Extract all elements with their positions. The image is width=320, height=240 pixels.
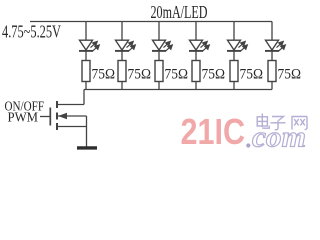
resistor R4	[192, 61, 200, 82]
wire anode branch 4	[195, 22, 197, 41]
svg-text:75Ω: 75Ω	[202, 67, 226, 83]
wire anode branch 5	[233, 22, 235, 41]
LED D5 emission arrows	[239, 41, 248, 51]
transistor Q1 drain contact bar	[56, 101, 58, 108]
resistor R6	[268, 61, 276, 82]
wire drain riser	[83, 90, 85, 105]
wire LED D4 cathode to resistor R4	[195, 51, 197, 61]
svg-text:75Ω: 75Ω	[128, 67, 152, 83]
LED D5	[227, 40, 241, 51]
svg-text:21IC: 21IC	[181, 111, 246, 152]
svg-text:75Ω: 75Ω	[92, 67, 116, 83]
transistor Q1 source lead	[57, 126, 87, 128]
watermark chinese char 网	[291, 117, 307, 130]
LED D6	[265, 40, 279, 51]
transistor Q1 source contact bar	[56, 123, 58, 130]
transistor Q1 body lead	[57, 115, 87, 117]
transistor Q1 drain lead	[57, 104, 84, 106]
svg-text:4.75~5.25V: 4.75~5.25V	[2, 22, 61, 42]
wire resistor R2 to bottom bus	[121, 82, 123, 90]
power rail +5V top bus	[30, 21, 272, 23]
watermark chinese char 电	[257, 114, 269, 129]
watermark chinese char 子	[271, 117, 286, 130]
wire resistor R3 to bottom bus	[158, 82, 160, 90]
wire LED D2 cathode to resistor R2	[121, 51, 123, 61]
wire anode branch 3	[158, 22, 160, 41]
wire gate input from PWM	[40, 116, 50, 118]
wire anode branch 2	[121, 22, 123, 41]
wire anode branch 1	[85, 22, 87, 41]
watermark dot of .com	[246, 143, 250, 147]
svg-text:75Ω: 75Ω	[165, 67, 189, 83]
resistor R1	[82, 61, 90, 82]
wire resistor R1 to bottom bus	[85, 82, 87, 90]
LED D4	[189, 40, 203, 51]
wire LED D5 cathode to resistor R5	[233, 51, 235, 61]
resistor R5	[230, 61, 238, 82]
wire resistor R4 to bottom bus	[195, 82, 197, 90]
wire LED D3 cathode to resistor R3	[158, 51, 160, 61]
LED D6 emission arrows	[277, 41, 286, 51]
LED D3	[152, 40, 166, 51]
svg-text:PWM: PWM	[8, 111, 39, 126]
svg-text:75Ω: 75Ω	[240, 67, 264, 83]
transistor Q1 gate electrode	[49, 108, 51, 126]
wire resistor R5 to bottom bus	[233, 82, 235, 90]
LED D2 emission arrows	[127, 41, 136, 51]
LED D2	[115, 40, 129, 51]
LED D1 emission arrows	[91, 41, 100, 51]
wire anode branch 6	[271, 22, 273, 41]
LED D4 emission arrows	[201, 41, 210, 51]
LED D3 emission arrows	[164, 41, 173, 51]
svg-text:20mA/LED: 20mA/LED	[151, 2, 208, 22]
wire LED D6 cathode to resistor R6	[271, 51, 273, 61]
resistor R2	[118, 61, 126, 82]
wire resistor R6 to bottom bus	[271, 82, 273, 90]
wire source to ground	[86, 116, 88, 148]
transistor Q1 body contact bar	[56, 113, 58, 120]
svg-text:75Ω: 75Ω	[278, 67, 302, 83]
bottom bus (cathode return)	[84, 89, 272, 91]
LED D1	[79, 40, 93, 51]
ground	[77, 146, 97, 149]
transistor Q1 body arrow	[58, 113, 67, 120]
resistor R3	[155, 61, 163, 82]
wire LED D1 cathode to resistor R1	[85, 51, 87, 61]
